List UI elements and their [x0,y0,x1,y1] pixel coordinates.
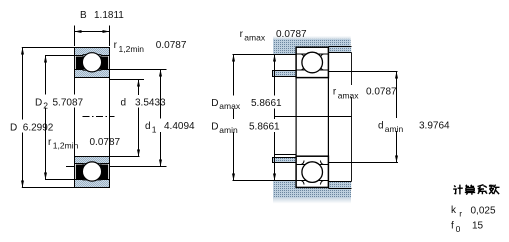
shaft surface line above bottom shoulder [274,154,296,156]
dimension line D with arrows [21,48,24,188]
label d1 4.4094 [144,119,196,135]
housing bottom fade edge [273,198,351,204]
housing bottom slab [273,188,351,198]
svg-text:2: 2 [43,100,48,110]
dimension ra/damin extension lines (right side) [329,72,399,163]
black cage filler (left drawing, top section) [76,57,108,70]
label r 1,2min 0.0787 (lower left of left bearing) [48,137,121,151]
label r amax 0.0787 (top left of right drawing) [240,29,307,43]
svg-text:amax: amax [244,33,266,43]
bearing top section box (right drawing) [296,47,329,77]
系 [478,185,488,195]
svg-text:5.8661: 5.8661 [251,98,282,109]
svg-text:D 6.2992: D 6.2992 [10,122,54,133]
svg-text:B: B [80,10,87,21]
bearing bottom section box (right drawing) [296,156,329,187]
inner ring top bar (left drawing, top section) [75,68,110,78]
housing top right shoulder wing [328,47,351,53]
housing top left shoulder wing [273,47,296,54]
label r 1,2min 0.0787 (upper right of left bearing) [114,40,187,54]
dimension D extension lines (top and bottom) [22,48,110,188]
svg-text:0: 0 [456,224,461,234]
svg-text:4.4094: 4.4094 [164,121,195,132]
housing bottom right shoulder wing [328,182,351,189]
svg-text:D: D [35,97,42,108]
dimension line D2 with arrows [44,56,47,180]
svg-text:amax: amax [338,90,360,100]
dimension line d1 with arrows [159,70,162,167]
svg-text:f: f [451,221,454,232]
svg-text:d: d [121,98,127,109]
housing top fade edge [273,36,351,39]
housing bottom left shoulder wing [273,181,296,188]
housing bore line right of bearing (bottom) [329,188,352,190]
svg-text:d: d [145,121,151,132]
svg-text:0.0787: 0.0787 [276,29,307,40]
svg-text:0.0787: 0.0787 [156,40,187,51]
label Damin 5.8661 [210,119,284,135]
bearing side face lines (left drawing) [75,48,110,188]
housing bottom right shoulder top edge [329,181,352,183]
dimension d extension lines [75,80,145,157]
shaft shoulder bar (right drawing, bottom) [273,158,297,163]
centerline axis (left drawing) [83,116,115,118]
计 [453,185,463,195]
dimension Damax extension lines [233,55,297,181]
svg-text:3.5433: 3.5433 [135,98,166,109]
dimension line Damin with arrows [273,55,276,181]
label r amax 0.0787 (right side) [332,85,398,100]
dimension B extension lines [75,26,110,47]
label Damax 5.8661 [210,96,284,112]
label kr 0,025 [451,205,496,218]
label D 6.2992 [9,120,57,134]
ball (left drawing, bottom section) [82,162,101,181]
housing right edge line [351,53,353,182]
svg-text:5.7087: 5.7087 [53,97,84,108]
数 [489,185,500,195]
housing bore line right of bearing (top) [329,46,352,48]
housing top slab [273,39,351,47]
svg-text:amin: amin [219,125,238,135]
label d 3.5433 [119,95,168,109]
svg-text:5.8661: 5.8661 [249,122,280,133]
label D2 5.7087 [34,95,86,111]
dimension line B with arrows [75,30,110,33]
svg-text:d: d [378,121,384,132]
算 [465,185,475,195]
black cage filler (left drawing, bottom section) [76,165,108,180]
shaft shoulder bar (right drawing, top) [273,71,297,77]
label 计算系数 (calculation factors, hand-drawn strokes) [453,185,499,195]
dimension line d with arrows [137,80,140,157]
svg-text:1,2min: 1,2min [119,44,145,54]
svg-text:0.0787: 0.0787 [366,87,397,98]
svg-text:D: D [211,122,218,133]
ball (left drawing, top section) [82,53,101,72]
svg-text:r: r [459,208,462,218]
svg-text:1,2min: 1,2min [53,140,79,150]
svg-text:0,025: 0,025 [471,206,496,217]
svg-text:amin: amin [385,124,404,134]
svg-text:15: 15 [472,221,484,232]
svg-text:3.9764: 3.9764 [419,121,450,132]
bearing side face lines through bore gap (right drawing) [296,78,328,157]
label f0 15 [451,221,484,234]
svg-text:D: D [211,98,218,109]
svg-text:amax: amax [219,101,241,111]
svg-text:1: 1 [152,124,157,134]
inner ring bottom bar (left drawing, bottom section) [75,157,110,166]
svg-text:0.0787: 0.0787 [90,137,121,148]
svg-text:1.1811: 1.1811 [94,10,124,21]
dimension D2 extension lines [45,56,75,180]
dimension d1 extension lines [66,70,167,167]
outer ring top bar (left drawing, top section) [75,48,110,58]
dimension line ra/damin with arrows (right side) [395,72,398,163]
dimension line Damax with arrows [232,55,235,181]
axis line (right drawing) [274,116,352,118]
outer ring bottom bar (left drawing, bottom section) [75,178,110,188]
housing top right shoulder bottom edge [329,52,352,54]
label d amin 3.9764 [377,118,451,134]
